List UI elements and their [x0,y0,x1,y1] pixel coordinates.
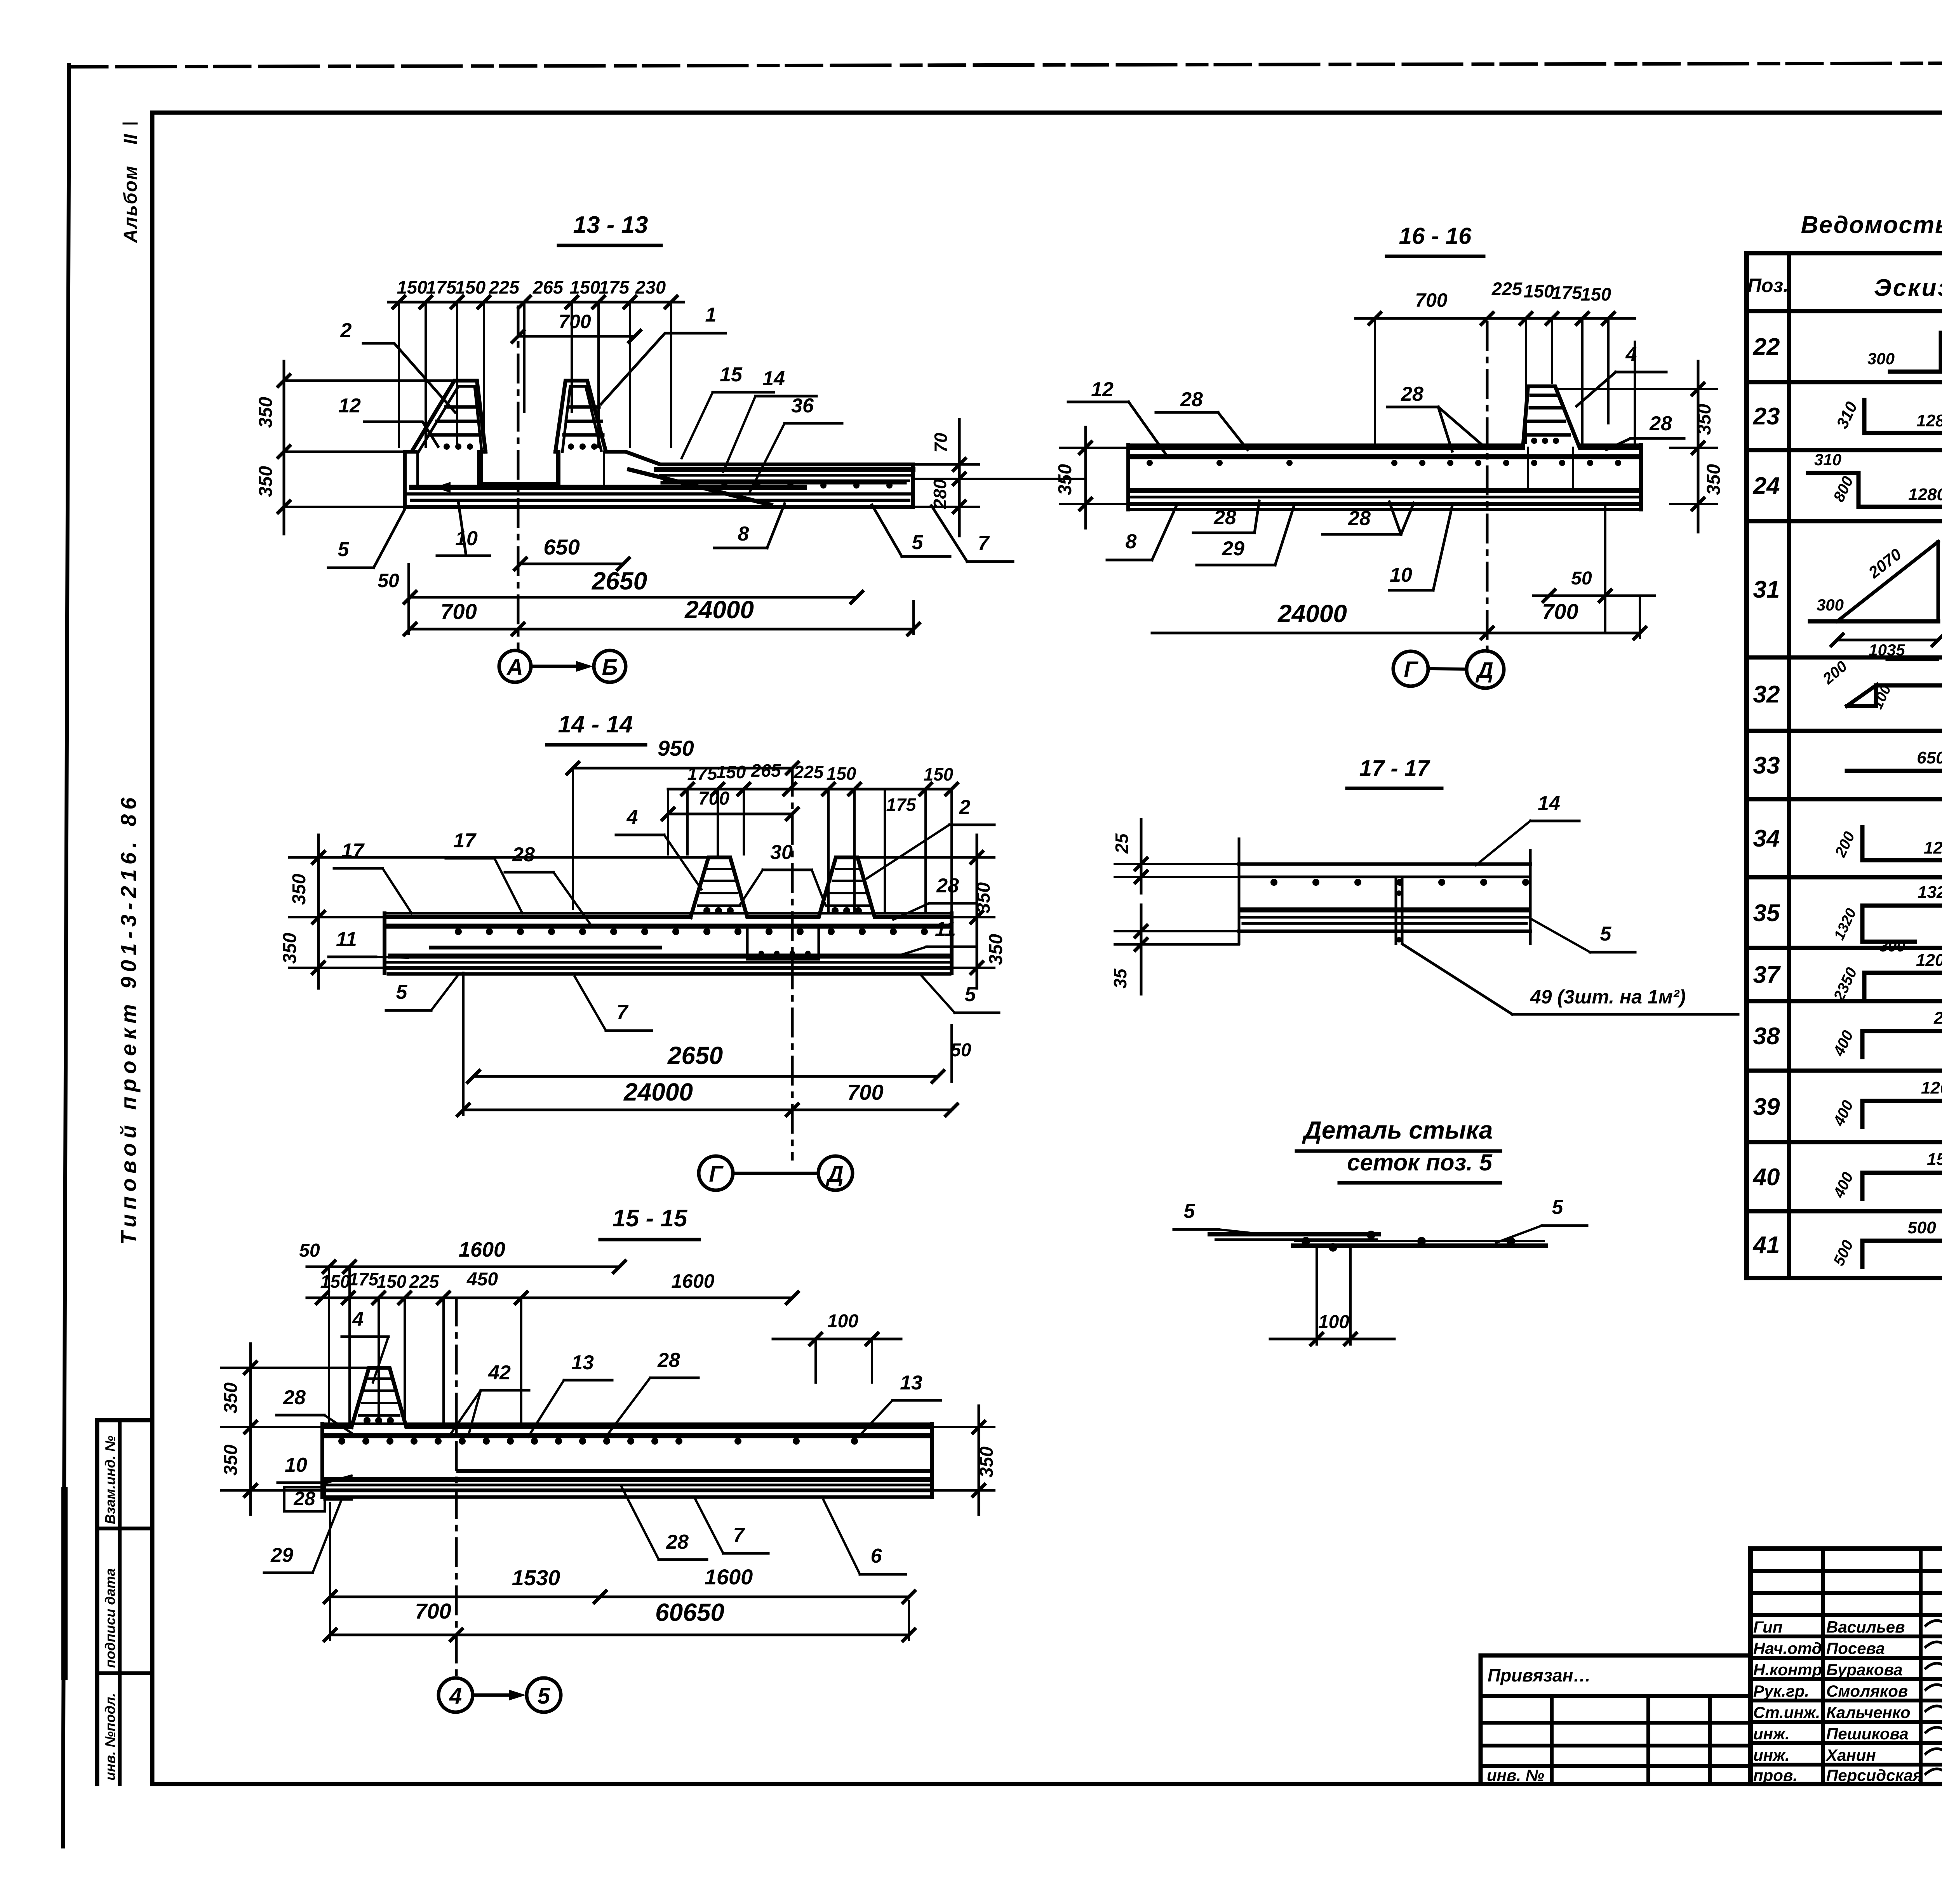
15-15 axis line [455,1298,458,1678]
16-16 dim 50 [1533,506,1655,633]
svg-text:Пешикова: Пешикова [1826,1725,1909,1743]
svg-text:Ведомость деталей: Ведомость деталей [1801,212,1942,238]
svg-text:10: 10 [1390,564,1412,586]
16-16 label 10 [1389,506,1452,590]
svg-text:2350: 2350 [1830,965,1860,1004]
14-14 dim 700 [662,788,798,820]
svg-text:1280: 1280 [1908,485,1942,504]
svg-text:350: 350 [1694,404,1715,435]
svg-text:350: 350 [221,1445,241,1476]
svg-text:5: 5 [1600,923,1612,945]
13-13 label 5 right [872,505,950,556]
svg-text:5: 5 [1552,1196,1564,1219]
sketch 34 [1832,827,1942,860]
svg-text:1200: 1200 [1916,951,1942,970]
svg-text:30: 30 [770,841,793,864]
15-15 bottom reinforcement bundle [322,1471,932,1497]
svg-text:1320: 1320 [1831,906,1860,942]
svg-text:40: 40 [1752,1164,1780,1191]
14-14 label 30 [740,841,825,905]
14-14 label 2 [867,796,994,878]
16-16 label 28 d [1323,502,1414,534]
14-14 label 5 right [921,975,999,1013]
svg-text:12: 12 [338,395,361,417]
detail mesh bar left [1210,1234,1379,1240]
section 17-17 title [1347,756,1442,788]
15-15 label 42 [449,1361,529,1437]
15-15 label 4 [342,1308,388,1382]
svg-text:пров.: пров. [1753,1766,1798,1784]
title block signatures squiggles [1926,1616,1942,1778]
svg-text:инж.: инж. [1753,1746,1790,1764]
svg-text:175: 175 [349,1269,379,1289]
svg-text:800: 800 [1830,474,1857,504]
svg-text:2350: 2350 [1933,1009,1942,1028]
svg-text:150: 150 [827,763,856,784]
svg-text:265: 265 [751,760,781,781]
svg-text:5: 5 [538,1683,550,1709]
16-16 hump internal lines [1527,395,1569,444]
svg-text:Деталь стыка: Деталь стыка [1302,1116,1493,1144]
svg-text:500: 500 [1907,1218,1936,1237]
15-15 top mesh line [324,1436,930,1445]
13-13 right dim 70 280 [916,419,1084,536]
svg-text:5: 5 [338,538,350,561]
svg-text:39: 39 [1753,1094,1780,1120]
15-15 label 29 [264,1499,342,1573]
15-15 label 7 [695,1499,768,1553]
16-16 slab outline [1128,386,1641,509]
svg-text:1200: 1200 [1924,838,1942,857]
15-15 label 28 boxed [284,1487,352,1511]
15-15 dim 100 right [773,1311,901,1382]
sketch 32 [1819,658,1942,715]
13-13 label 50 [378,564,409,634]
16-16 dim 700 over axis [1356,289,1493,324]
outer scan page edge top (dashed) [72,62,1942,67]
outer scan page edge left [63,65,69,1847]
13-13 hump B internal lines [562,386,603,452]
svg-text:700: 700 [1542,599,1578,624]
svg-text:400: 400 [1830,1028,1857,1059]
svg-text:350: 350 [973,882,994,913]
svg-text:33: 33 [1753,752,1780,779]
svg-text:Гип: Гип [1753,1618,1783,1636]
svg-text:28: 28 [1213,506,1236,529]
17-17 left dim 35 [1110,905,1239,994]
13-13 dim 700 [512,311,640,342]
svg-text:350: 350 [1704,464,1724,495]
16-16 label 28 b [1387,383,1486,451]
svg-text:350: 350 [256,397,276,428]
14-14 label 11 left [329,928,408,958]
vedomost left table grid [1747,253,1942,1278]
svg-text:225: 225 [794,762,824,782]
detail title line 1 [1296,1116,1500,1151]
svg-text:28: 28 [936,875,959,897]
svg-text:28: 28 [1348,507,1371,530]
svg-text:15: 15 [720,363,743,386]
13-13 label 2 [340,319,455,412]
left strip table frame [97,1420,148,1784]
section 13-13 title [559,212,661,245]
svg-text:49 (3шт. на 1м²): 49 (3шт. на 1м²) [1530,986,1686,1008]
sketch 22 [1867,311,1942,372]
15-15 label 13 b [858,1372,941,1437]
svg-text:11: 11 [935,918,956,941]
svg-text:4: 4 [1625,343,1637,366]
svg-text:Ст.инж.: Ст.инж. [1753,1703,1820,1721]
14-14 under-hump channel [747,926,819,959]
14-14 dim 50 [950,1025,971,1082]
svg-text:1200: 1200 [1921,1078,1942,1097]
svg-text:7: 7 [978,532,990,555]
svg-text:инв. №: инв. № [1487,1766,1544,1784]
svg-text:13 - 13: 13 - 13 [573,212,648,238]
svg-text:150: 150 [377,1271,407,1292]
svg-text:70: 70 [931,433,951,453]
svg-text:24000: 24000 [623,1078,693,1106]
svg-text:17: 17 [453,829,477,852]
vedomost title [1801,212,1942,238]
16-16 right dim 350 350 [1557,361,1724,532]
svg-text:10: 10 [455,527,478,550]
svg-text:28: 28 [1180,388,1203,411]
title block outer [1751,1549,1942,1784]
svg-text:1600: 1600 [671,1270,714,1292]
14-14 hump 1 internals [698,869,740,914]
14-14 slab outline [385,857,952,973]
vedomost header Эскиз [1874,275,1942,301]
svg-text:150: 150 [397,277,427,297]
15-15 label 28 left [277,1386,352,1433]
14-14 axis line [791,768,794,1159]
svg-text:13: 13 [571,1351,594,1374]
16-16 label 28 right [1606,412,1684,450]
svg-text:300: 300 [1867,350,1895,368]
svg-text:150: 150 [455,277,486,297]
svg-text:II: II [120,134,141,144]
svg-text:Привязан…: Привязан… [1488,1665,1591,1685]
svg-text:23: 23 [1753,403,1780,430]
svg-text:28: 28 [1649,412,1672,435]
13-13 label 1 [601,304,726,404]
17-17 label 5 [1532,920,1635,952]
13-13 hump A internal lines [419,386,482,452]
14-14 label 17 a [334,840,412,913]
svg-text:700: 700 [1415,289,1448,311]
detail title line 2 [1339,1149,1500,1183]
svg-text:225: 225 [489,277,520,297]
14-14 label 4 [616,806,701,889]
svg-text:350: 350 [289,874,310,905]
13-13 bottom reinforcement mesh [408,482,911,500]
svg-text:310: 310 [1814,450,1841,469]
14-14 label 11 right [897,918,975,956]
15-15 label 28 a [606,1349,698,1437]
13-13 label 14 [723,367,816,472]
svg-text:Г: Г [1404,657,1418,682]
14-14 dim label 175 extra [886,795,917,815]
13-13 internal rib verticals [418,452,604,487]
13-13 bent-up bar diagonal [629,469,771,505]
svg-text:28: 28 [293,1488,315,1509]
13-13 axis line [517,307,520,650]
svg-text:подписи дата: подписи дата [102,1568,118,1668]
svg-text:А: А [506,655,523,680]
sketch 23 [1833,399,1942,433]
inv number label [1487,1766,1544,1784]
svg-text:Посева: Посева [1826,1639,1885,1657]
svg-text:Рук.гр.: Рук.гр. [1753,1682,1809,1700]
svg-text:150: 150 [1524,281,1554,301]
svg-text:300: 300 [1879,938,1905,955]
svg-text:29: 29 [1222,537,1244,560]
15-15 left dim 350 350 [221,1344,369,1515]
svg-text:сеток поз. 5: сеток поз. 5 [1347,1149,1493,1175]
left strip label: подписи дата [102,1568,118,1668]
13-13 axis circles А Б [499,650,626,682]
svg-text:400: 400 [1830,1170,1857,1201]
svg-text:350: 350 [976,1447,997,1478]
svg-text:150: 150 [1581,284,1611,304]
svg-text:175: 175 [1552,282,1582,303]
svg-text:350: 350 [280,933,300,964]
vedomost header Поз [1747,275,1789,296]
svg-text:10: 10 [285,1454,307,1476]
svg-text:350: 350 [1055,464,1075,495]
16-16 dim extension verticals [1375,318,1635,445]
svg-text:34: 34 [1753,825,1780,852]
svg-text:150: 150 [570,277,600,297]
svg-text:25: 25 [1112,833,1132,854]
svg-text:Нач.отд: Нач.отд [1753,1639,1822,1657]
svg-text:15 - 15: 15 - 15 [612,1205,688,1232]
svg-text:175: 175 [886,795,917,815]
14-14 dim 24000 700 [458,973,957,1116]
svg-text:Буракова: Буракова [1826,1661,1903,1679]
svg-text:Ханин: Ханин [1825,1746,1876,1764]
svg-text:100: 100 [827,1311,858,1332]
svg-text:41: 41 [1752,1232,1780,1259]
svg-text:280: 280 [930,479,950,509]
svg-text:1: 1 [705,304,717,326]
16-16 label 8 [1107,506,1176,560]
svg-text:Поз.: Поз. [1747,275,1789,296]
svg-text:8: 8 [738,523,749,545]
svg-text:50: 50 [378,570,399,591]
16-16 label 12 [1068,378,1166,454]
svg-text:13: 13 [900,1372,922,1394]
13-13 top dim extension verticals [399,302,671,447]
sketch 37 [1830,951,1942,1004]
svg-text:35: 35 [1753,900,1780,927]
svg-text:17 - 17: 17 - 17 [1359,756,1430,781]
15-15 dim 700 60650 [324,1503,915,1641]
svg-text:Д: Д [1475,658,1493,683]
svg-text:100: 100 [1318,1312,1349,1332]
left margin vertical text: Альбом II [120,123,141,243]
svg-text:2070: 2070 [1865,545,1905,582]
16-16 axis circles Г Д [1393,651,1504,688]
svg-text:7: 7 [733,1524,745,1546]
svg-text:31: 31 [1753,576,1780,603]
svg-text:175: 175 [599,277,630,297]
svg-text:4: 4 [352,1308,364,1330]
svg-text:1280: 1280 [1916,411,1942,430]
16-16 dim 24000 700 [1152,596,1646,639]
15-15 dim 1530 1600 [324,1565,915,1603]
detail label 5 right [1496,1196,1587,1243]
svg-text:2650: 2650 [592,567,647,595]
svg-text:5: 5 [396,981,408,1003]
svg-text:38: 38 [1753,1023,1780,1050]
svg-text:Васильев: Васильев [1826,1618,1905,1636]
svg-text:1320: 1320 [1918,883,1942,902]
15-15 slab outline [322,1368,932,1497]
svg-text:22: 22 [1753,334,1780,360]
svg-text:16 - 16: 16 - 16 [1399,223,1472,249]
13-13 top dimension chain line 150 175 150 225 265 150 175 230 [388,296,684,308]
16-16 left dim 350 [1055,427,1128,528]
14-14 label 5 left [386,975,458,1010]
svg-text:175: 175 [687,763,718,784]
svg-text:28: 28 [666,1531,689,1553]
svg-text:Персидская: Персидская [1826,1766,1922,1784]
svg-text:7: 7 [617,1001,629,1024]
svg-text:Н.контр: Н.контр [1753,1661,1822,1679]
svg-text:36: 36 [791,395,814,417]
13-13 top mesh right bundle [656,469,913,489]
svg-text:230: 230 [635,277,666,297]
14-14 right dim 350 350 [859,835,1006,988]
svg-text:150: 150 [716,762,746,782]
17-17 label 49 [1403,944,1738,1014]
svg-text:28: 28 [283,1386,306,1409]
svg-text:инв. №подл.: инв. №подл. [102,1693,118,1781]
16-16 label 28 a [1156,388,1248,450]
section 16-16 title [1387,223,1484,256]
privyazan table [1481,1655,1751,1784]
svg-text:Альбом: Альбом [120,165,141,243]
sketch 31 [1810,536,1942,660]
svg-text:2650: 2650 [667,1042,723,1069]
svg-text:Взам.инд. №: Взам.инд. № [102,1436,118,1524]
17-17 mesh splice pin [1396,877,1402,944]
svg-text:265: 265 [532,277,564,297]
16-16 dim chain 225 150 175 150 [1487,278,1635,324]
svg-text:700: 700 [415,1599,451,1623]
14-14 left dim 350 350 [280,835,708,988]
svg-text:350: 350 [986,934,1006,965]
svg-text:инж.: инж. [1753,1725,1790,1743]
svg-text:37: 37 [1753,962,1781,988]
13-13 label 10 [437,502,490,556]
14-14 top mesh line [386,926,950,935]
svg-text:150: 150 [924,764,954,784]
svg-text:650: 650 [543,535,579,559]
svg-text:24000: 24000 [1277,600,1347,628]
16-16 bottom reinforcement bundle [1128,490,1639,509]
16-16 axis line [1486,322,1489,649]
13-13 label 12 [338,395,438,447]
svg-text:700: 700 [847,1080,883,1104]
16-16 hump anchor verticals [1528,448,1573,490]
detail mesh bar right [1293,1241,1546,1246]
section 15-15 title [600,1205,699,1240]
vedomost left position numbers [1752,334,1781,1259]
svg-text:Г: Г [709,1162,724,1187]
13-13 label 8 [714,504,785,548]
svg-text:1600: 1600 [459,1238,505,1261]
svg-text:8: 8 [1126,530,1137,553]
svg-text:29: 29 [270,1544,293,1567]
13-13 label 36 [750,395,842,492]
14-14 label 28 b [893,875,977,920]
14-14 dim 950 [567,736,798,774]
svg-text:4: 4 [626,806,638,829]
svg-text:14: 14 [762,367,785,390]
svg-text:950: 950 [658,736,694,760]
svg-text:350: 350 [221,1382,241,1414]
svg-text:175: 175 [426,277,457,297]
svg-text:5: 5 [965,983,976,1006]
detail dim 100 [1270,1248,1394,1345]
14-14 axis circles Г Д [699,1156,853,1190]
svg-text:2: 2 [340,319,352,342]
13-13 label 15 [682,363,774,458]
svg-text:400: 400 [1830,1098,1857,1129]
svg-text:17: 17 [341,840,365,862]
svg-text:28: 28 [512,843,535,866]
15-15 label 10 [278,1454,352,1483]
sketch 33 [1847,748,1942,797]
svg-text:200: 200 [1819,658,1850,688]
svg-text:500: 500 [1830,1238,1857,1268]
svg-text:225: 225 [1491,278,1523,299]
15-15 label 28 bottom [621,1487,707,1560]
13-13 dim 700 24000 [404,596,919,635]
15-15 label 13 a [528,1351,612,1437]
svg-text:Эскиз: Эскиз [1874,275,1942,301]
sketch 40 [1830,1150,1942,1201]
sketch 24 [1808,448,1942,507]
16-16 label 29 [1197,504,1295,565]
svg-text:12: 12 [1091,378,1114,401]
svg-text:Типовой проект 901-3-216. 86: Типовой проект 901-3-216. 86 [116,793,141,1245]
svg-text:14: 14 [1538,792,1560,815]
13-13 left dim 350 350 [256,361,454,534]
title block signature names [1753,1618,1922,1784]
15-15 dim chain 150 175 150 225 450 1600 [307,1269,798,1304]
13-13 slab left block outline [405,381,913,507]
svg-text:50: 50 [299,1240,320,1261]
sketch 38 [1830,1009,1942,1059]
svg-text:24000: 24000 [684,596,754,624]
sketch 35 [1831,883,1942,955]
svg-text:11: 11 [336,928,357,951]
13-13 dim 2650 [404,567,863,603]
svg-text:35: 35 [1110,968,1130,989]
svg-text:300: 300 [1817,596,1844,614]
svg-text:50: 50 [950,1040,971,1061]
svg-text:650: 650 [1917,748,1942,767]
svg-text:450: 450 [466,1269,498,1290]
svg-text:28: 28 [657,1349,680,1372]
title block signature table grid [1751,1549,1942,1784]
15-15 dim extension verticals [329,1267,521,1421]
svg-text:700: 700 [440,599,477,624]
